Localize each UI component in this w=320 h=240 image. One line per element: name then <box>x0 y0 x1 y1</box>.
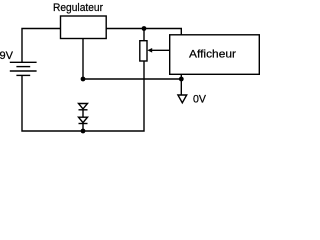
wire battery bottom along page bottom to potentiometer <box>22 61 144 131</box>
junction node at bottom rail <box>81 129 86 134</box>
potentiometer P1 body <box>140 29 147 62</box>
battery B1 9V <box>10 62 37 75</box>
svg-text:0V: 0V <box>193 94 207 106</box>
wire between diodes <box>82 110 84 117</box>
junction node at regulator output <box>142 26 147 31</box>
wire battery top to regulator <box>22 29 61 63</box>
junction node at diode top <box>81 77 86 82</box>
diode D2 <box>79 117 88 123</box>
wire regulator output to display top pin <box>106 29 181 35</box>
wire regulator bottom pin to 0V node <box>82 39 84 80</box>
diode D1 <box>79 104 88 110</box>
svg-text:9V: 9V <box>0 50 14 62</box>
regulator U1 box <box>61 16 107 39</box>
potentiometer wiper arrow from display <box>147 48 169 53</box>
svg-text:Regulateur: Regulateur <box>53 2 103 14</box>
wire 0V rail from diode node to ground node <box>83 78 181 80</box>
junction node at ground <box>179 77 184 82</box>
svg-text:Afficheur: Afficheur <box>189 49 236 61</box>
display U2 box <box>170 35 260 75</box>
ground symbol 0V <box>178 95 187 103</box>
wire diode D2 to bottom rail <box>82 124 84 132</box>
wire display bottom pin to ground symbol <box>180 74 182 95</box>
